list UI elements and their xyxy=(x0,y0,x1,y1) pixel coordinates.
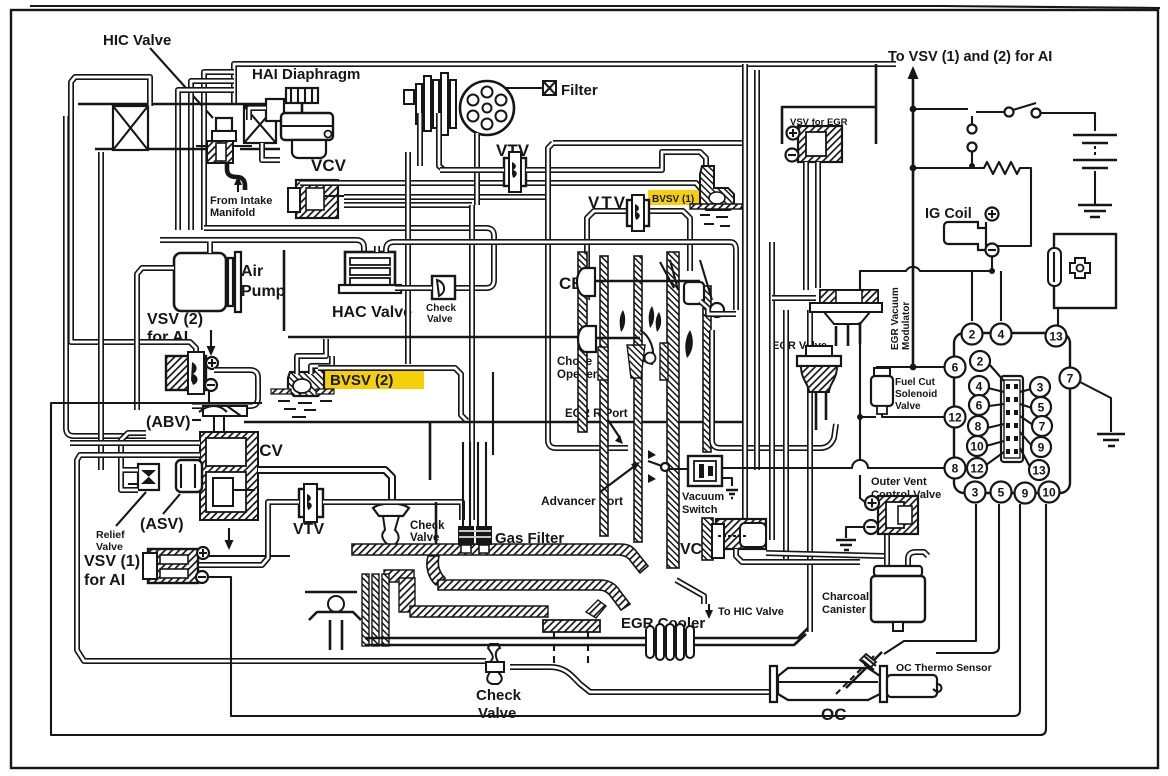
svg-text:HAI Diaphragm: HAI Diaphragm xyxy=(252,66,360,83)
left outer tube loop to VSV (2) xyxy=(71,77,196,358)
top arrow To VSV line xyxy=(912,75,915,367)
right pin 7 xyxy=(1060,368,1081,389)
HAI diaphragm assembly xyxy=(249,88,333,158)
leader ASV xyxy=(163,494,180,514)
check valve top component xyxy=(432,276,455,299)
svg-text:6: 6 xyxy=(976,399,983,413)
svg-text:3: 3 xyxy=(1037,381,1044,395)
svg-text:9: 9 xyxy=(1022,487,1029,501)
relief valve xyxy=(128,464,159,490)
fuel cut solenoid valve xyxy=(871,368,893,414)
tube VCV right to BVSV1 xyxy=(300,183,702,197)
svg-text:Fuel Cut: Fuel Cut xyxy=(895,377,936,388)
check valve bottom xyxy=(486,644,504,684)
air cleaner element X box left xyxy=(113,106,148,150)
VTV 1 component xyxy=(504,152,526,192)
EGR cooler bellows xyxy=(646,624,694,660)
svg-text:7: 7 xyxy=(1039,420,1046,434)
svg-text:Check: Check xyxy=(426,303,456,314)
outer vent control valve xyxy=(864,496,918,534)
VCV bottom component xyxy=(712,519,766,558)
resistor xyxy=(913,162,1031,246)
VTV2 box xyxy=(587,211,690,300)
svg-text:6: 6 xyxy=(952,361,959,375)
manifold elbow A-B xyxy=(427,556,445,585)
svg-text:Valve: Valve xyxy=(427,314,453,325)
OC catalytic converter xyxy=(770,652,942,702)
highlight BVSV (1) xyxy=(648,190,708,205)
choke opener capsule xyxy=(578,326,653,364)
distributor coil stack xyxy=(404,73,456,135)
svg-text:Air: Air xyxy=(241,263,263,280)
tube x472 down to carb xyxy=(469,205,475,520)
advancer port leader xyxy=(600,465,636,492)
tube HAC to check valve xyxy=(395,285,432,291)
tube air pump to ABV xyxy=(137,268,174,410)
choke area hatched bits xyxy=(598,347,608,380)
ACV body hatched xyxy=(200,432,258,520)
filter symbol xyxy=(543,81,556,95)
tube air pump top to HAC xyxy=(160,240,364,253)
svg-text:Pump: Pump xyxy=(241,283,286,300)
carb lower box xyxy=(430,422,436,544)
svg-text:Modulator: Modulator xyxy=(901,302,912,350)
svg-text:Vacuum: Vacuum xyxy=(682,491,724,503)
svg-text:7: 7 xyxy=(1067,372,1074,386)
to HIC valve spur xyxy=(676,580,704,604)
tube BVSV2 east elbow down xyxy=(318,368,467,421)
battery xyxy=(1073,135,1117,217)
gas filter nuts (over band) xyxy=(458,526,474,545)
tube air cleaner down to ABV xyxy=(98,152,104,470)
computer box xyxy=(954,333,1070,493)
engine runner connector xyxy=(384,570,414,582)
HIC valve xyxy=(196,118,252,190)
svg-text:3: 3 xyxy=(972,486,979,500)
EGR vacuum modulator xyxy=(810,290,882,346)
svg-text:4: 4 xyxy=(998,328,1005,342)
computer pin circles xyxy=(945,324,1081,504)
highlight BVSV (2) xyxy=(318,371,424,389)
ground pin7 xyxy=(1097,434,1125,446)
carb column 2 xyxy=(600,256,608,536)
carb column 5 xyxy=(703,286,711,452)
tube VSV2 right loop xyxy=(192,370,258,406)
leader relief valve xyxy=(116,492,146,526)
tube VTV bottom line xyxy=(199,502,462,565)
EGR valve xyxy=(797,346,841,430)
tube x408 pair xyxy=(405,152,411,364)
svg-text:10: 10 xyxy=(1042,486,1056,500)
svg-text:HAC Valve: HAC Valve xyxy=(332,304,412,321)
box around BVSV2 region xyxy=(244,250,746,422)
BVSV (1) valve xyxy=(690,166,742,226)
svg-text:EGR Vacuum: EGR Vacuum xyxy=(890,287,901,350)
manifold right funnel xyxy=(586,600,606,618)
CB capsule xyxy=(577,260,700,296)
wire outer vent minus to ground xyxy=(846,527,864,538)
svg-text:Valve: Valve xyxy=(478,705,516,722)
svg-text:Valve: Valve xyxy=(96,541,123,553)
svg-text:VTV: VTV xyxy=(293,521,324,538)
VTV bottom-left component xyxy=(299,484,323,522)
svg-text:Filter: Filter xyxy=(561,82,598,99)
svg-text:HIC Valve: HIC Valve xyxy=(103,32,171,49)
tube HAI to air cleaner right xyxy=(262,143,280,160)
vertical tube bundle xyxy=(745,64,810,632)
HAC valve component xyxy=(339,252,401,293)
svg-text:(ABV): (ABV) xyxy=(146,414,190,431)
tube from float area down xyxy=(700,301,736,314)
tube ACV right to funnel xyxy=(258,470,392,504)
tube outer left down to ABV xyxy=(66,116,146,436)
junction dots xyxy=(910,106,917,113)
distributor cap xyxy=(460,81,514,135)
svg-text:Canister: Canister xyxy=(822,604,867,616)
to HIC valve arrow xyxy=(708,604,710,612)
tube nested to VCV left xyxy=(204,228,494,288)
svg-text:13: 13 xyxy=(1049,330,1063,344)
arrow to VSV1 plus xyxy=(209,528,290,556)
inner left pins xyxy=(970,351,990,371)
svg-text:OC: OC xyxy=(821,705,847,724)
ground outer vent xyxy=(836,540,856,550)
svg-text:5: 5 xyxy=(998,486,1005,500)
wire speed sensor to 13 xyxy=(1057,308,1059,325)
air pump xyxy=(174,252,241,312)
wire distributor to filter xyxy=(505,87,543,89)
wire pin6 to fuel cut xyxy=(860,367,944,417)
connector leader lines xyxy=(986,364,1033,467)
carb column 4 xyxy=(667,252,679,568)
svg-text:Outer Vent: Outer Vent xyxy=(871,476,927,488)
VSV (2) component xyxy=(166,352,218,394)
svg-text:8: 8 xyxy=(952,462,959,476)
svg-text:To HIC Valve: To HIC Valve xyxy=(718,606,784,618)
leader ABV xyxy=(192,419,201,421)
manifold elbow down xyxy=(399,578,415,612)
leader HIC Valve xyxy=(150,48,213,118)
wire IG minus loop xyxy=(860,257,1001,503)
svg-text:12: 12 xyxy=(948,411,962,425)
tube into modulator left xyxy=(772,295,816,301)
tube VCV to canister xyxy=(736,533,887,572)
IG coil xyxy=(944,208,999,257)
EGR R Port leader xyxy=(608,420,620,438)
svg-text:Advancer Port: Advancer Port xyxy=(541,494,623,508)
tube distributor down xyxy=(474,133,480,205)
tube into relief valve from left xyxy=(121,433,146,490)
vacuum switch xyxy=(688,456,738,498)
svg-text:13: 13 xyxy=(1032,464,1046,478)
svg-text:Charcoal: Charcoal xyxy=(822,591,869,603)
BVSV (2) valve xyxy=(271,364,334,417)
VSV for EGR box xyxy=(782,64,876,144)
tube x548 vertical xyxy=(548,143,628,448)
charcoal canister xyxy=(871,552,928,631)
nested corner tubes top middle xyxy=(204,72,234,230)
svg-text:(ASV): (ASV) xyxy=(140,516,184,533)
bottom pins xyxy=(965,482,986,503)
tube coil down to VTV line xyxy=(439,113,444,170)
svg-text:12: 12 xyxy=(970,462,984,476)
svg-text:From Intake: From Intake xyxy=(210,195,272,207)
intake manifold band C xyxy=(410,606,548,617)
tube VTV1 line to BVSV1 xyxy=(440,152,706,170)
svg-text:2: 2 xyxy=(969,328,976,342)
HAI box top tube xyxy=(234,64,896,103)
venturi teardrops xyxy=(620,306,693,358)
funnel check valve on carb xyxy=(373,504,409,547)
VSV for EGR component xyxy=(786,126,843,162)
tube BVSV2 up elbows xyxy=(297,339,332,374)
VSV (1) component xyxy=(143,547,209,583)
tube HAC top third xyxy=(374,246,380,252)
ASV valve xyxy=(176,460,202,492)
left pins xyxy=(945,357,966,378)
svg-text:VSV (1): VSV (1) xyxy=(84,553,140,570)
EGR cooler pipe xyxy=(365,628,808,645)
carb column 1 xyxy=(578,252,587,432)
tube carb right box xyxy=(712,330,836,448)
advancer port marks xyxy=(648,450,656,483)
tube VSV EGR down to EGR valve xyxy=(806,162,818,290)
svg-text:Relief: Relief xyxy=(96,529,125,541)
svg-text:BVSV (1): BVSV (1) xyxy=(652,194,694,205)
svg-text:Solenoid: Solenoid xyxy=(895,389,937,400)
svg-text:OC Thermo Sensor: OC Thermo Sensor xyxy=(896,662,992,674)
tube coil down left xyxy=(417,113,423,166)
air cleaner housing lines xyxy=(78,103,280,106)
VCV top component xyxy=(288,180,352,218)
tube VCV lower to distributor column xyxy=(344,202,472,208)
svg-text:2: 2 xyxy=(977,355,984,369)
svg-text:Check: Check xyxy=(476,687,522,704)
wire pin 5 to OC sensor xyxy=(936,504,999,653)
svg-text:5: 5 xyxy=(1038,401,1045,415)
intake manifold band B xyxy=(438,580,630,610)
carb column 3 xyxy=(634,256,642,542)
air cleaner element X box right xyxy=(244,106,276,143)
ABV valve xyxy=(199,406,247,438)
gas filter xyxy=(458,372,493,552)
wire OC thermo sensor to pin 3 xyxy=(884,504,976,654)
svg-text:Manifold: Manifold xyxy=(210,207,255,219)
svg-text:To VSV (1) and (2) for AI: To VSV (1) and (2) for AI xyxy=(888,49,1052,65)
svg-text:for AI: for AI xyxy=(84,572,125,589)
arrow to VSV2 plus xyxy=(210,330,212,349)
switch chain xyxy=(913,103,1095,169)
svg-text:EGR R Port: EGR R Port xyxy=(565,408,628,420)
tube y242 long xyxy=(386,242,736,310)
svg-text:Switch: Switch xyxy=(682,504,718,516)
svg-text:BVSV (2): BVSV (2) xyxy=(330,372,393,389)
svg-text:VSV (2): VSV (2) xyxy=(147,311,203,328)
EGR flange xyxy=(543,620,600,666)
speed sensor xyxy=(1048,234,1116,308)
float bowl xyxy=(684,260,724,317)
inner right pins xyxy=(1030,377,1050,397)
svg-text:IG Coil: IG Coil xyxy=(925,206,972,222)
VTV 2 component xyxy=(627,195,649,231)
intake manifold band A xyxy=(352,544,648,573)
connector xyxy=(1001,376,1023,462)
engine piston area xyxy=(305,574,389,650)
svg-text:9: 9 xyxy=(1038,441,1045,455)
svg-text:Check: Check xyxy=(410,520,445,532)
svg-text:10: 10 xyxy=(970,440,984,454)
tube check valve to OC xyxy=(510,667,770,692)
svg-text:8: 8 xyxy=(975,420,982,434)
wire pin 7 to ground xyxy=(1080,382,1111,432)
tube top y143 xyxy=(553,140,745,146)
wire VSV1 minus to rail xyxy=(208,504,1020,716)
wire VSV2 minus to bottom rail xyxy=(51,391,1046,735)
top pins xyxy=(962,324,983,345)
svg-text:4: 4 xyxy=(976,380,983,394)
svg-text:Valve: Valve xyxy=(895,401,921,412)
wire switch contact left xyxy=(648,461,688,469)
wire vacuum switch to pin 8 xyxy=(722,460,944,468)
From Intake Manifold arrow xyxy=(237,180,239,192)
tube ACV left ports xyxy=(70,443,486,661)
